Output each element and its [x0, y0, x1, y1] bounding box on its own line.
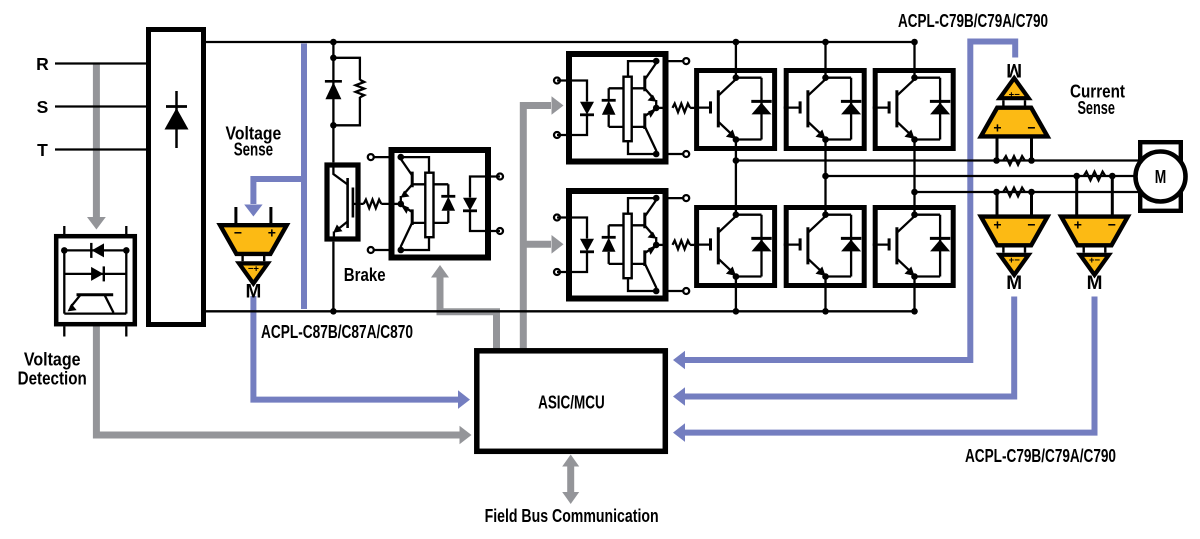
node brake branch split	[330, 55, 337, 62]
IGBT module Q4	[694, 205, 775, 288]
wire voltage sense amp pins	[236, 207, 271, 224]
wire inverter leg 1	[735, 42, 737, 311]
svg-text:−: −	[1027, 120, 1035, 136]
gray wire voltage detection to ASIC	[96, 326, 471, 444]
blue wire phase3 current sense amp to ASIC	[673, 297, 1014, 406]
node leg3 bottom	[911, 308, 918, 315]
gate driver U3 lower	[554, 191, 689, 299]
ASIC/MCU block	[477, 351, 666, 452]
svg-text:S: S	[37, 97, 49, 117]
node leg1 top	[733, 39, 740, 46]
wire inverter leg 3	[913, 42, 915, 311]
current sense amplifier U7 phase V	[1061, 217, 1128, 294]
svg-text:ACPL-C79B/C79A/C790: ACPL-C79B/C79A/C790	[898, 11, 1048, 31]
IGBT module Q1	[694, 68, 775, 151]
gate driver U2 upper	[554, 54, 689, 162]
svg-text:+−: +−	[1009, 90, 1021, 101]
current sense amplifier U5 top (flipped)	[981, 59, 1048, 136]
IGBT module Q2	[784, 68, 865, 151]
wire DC+ top bus	[205, 41, 915, 43]
gray double arrow field bus	[562, 455, 579, 505]
node shunt R3 left	[993, 157, 1000, 164]
brake gate driver U4	[368, 150, 503, 258]
wire gate upper	[690, 107, 694, 109]
shunt resistor R4 on phase V	[1084, 172, 1106, 181]
brake branch diode D2	[325, 81, 342, 99]
gray arrow from R line to voltage detection	[87, 64, 106, 230]
node leg1 bottom	[733, 308, 740, 315]
gray arrow ASIC to gate drivers	[523, 96, 563, 349]
node brake top	[330, 39, 337, 46]
wire S	[55, 105, 146, 107]
blue wire phase2 current sense amp to ASIC	[673, 297, 1095, 442]
wire phase2 amp pins	[1077, 176, 1113, 216]
svg-text:−: −	[234, 225, 242, 241]
node shunt R5 right	[1028, 189, 1035, 196]
voltage sense amplifier U1	[220, 225, 287, 303]
svg-text:−: −	[1108, 217, 1116, 233]
svg-text:R: R	[36, 54, 49, 74]
rectifier bridge	[149, 30, 204, 325]
node phase W tap	[911, 189, 918, 196]
gate resistor R8 brake	[364, 200, 382, 209]
wire R	[55, 62, 146, 64]
svg-text:−: −	[1027, 217, 1035, 233]
wire inverter leg 2	[824, 42, 826, 311]
voltage detection optocoupler	[56, 226, 135, 337]
shunt resistor R5 on phase W	[1003, 188, 1025, 197]
wire phase3 amp pins	[997, 192, 1032, 216]
wire phase V	[826, 175, 1141, 177]
motor M	[1136, 142, 1186, 211]
svg-text:ACPL-C87B/C87A/C870: ACPL-C87B/C87A/C870	[261, 322, 413, 342]
brake IGBT module Q7	[327, 165, 358, 239]
IGBT module Q5	[784, 205, 865, 288]
gate resistor R6 upper	[673, 104, 691, 113]
svg-text:Detection: Detection	[18, 369, 87, 389]
svg-text:M: M	[1155, 166, 1167, 187]
wire top amp pins	[997, 137, 1032, 161]
node shunt R4 right	[1109, 173, 1116, 180]
wire DC- bottom bus	[205, 310, 915, 312]
svg-text:+: +	[993, 217, 1001, 233]
blue DC bus sense line	[301, 44, 307, 310]
node shunt R5 left	[993, 189, 1000, 196]
svg-text:−+: −+	[248, 264, 260, 275]
svg-text:Brake: Brake	[344, 265, 386, 285]
svg-text:ACPL-C79B/C79A/C790: ACPL-C79B/C79A/C790	[965, 446, 1116, 466]
wire gate lower	[690, 244, 694, 246]
node leg3 top	[911, 39, 918, 46]
shunt resistor R3 on phase U	[1003, 156, 1025, 165]
svg-text:Sense: Sense	[234, 140, 273, 160]
node leg2 top	[822, 39, 829, 46]
wire brake parallel branch	[333, 58, 360, 126]
node brake branch rejoin	[330, 122, 337, 129]
gate resistor R7 lower	[673, 241, 691, 250]
svg-text:+−: +−	[1089, 255, 1101, 266]
wire phase W	[915, 191, 1141, 193]
svg-text:T: T	[37, 140, 48, 160]
svg-text:+: +	[993, 120, 1001, 136]
IGBT module Q6	[873, 205, 954, 288]
wire T	[55, 148, 146, 150]
brake branch resistor R2	[356, 80, 365, 98]
svg-text:Sense: Sense	[1077, 98, 1115, 118]
svg-text:ASIC/MCU: ASIC/MCU	[538, 393, 605, 413]
IGBT module Q3	[873, 68, 954, 151]
wire gate brake	[361, 203, 389, 205]
current sense amplifier U6 phase W	[981, 217, 1048, 294]
blue wire voltage sense amp to ASIC	[253, 296, 470, 409]
svg-text:+: +	[268, 225, 276, 241]
node shunt R3 right	[1028, 157, 1035, 164]
gray arrow ASIC to brake driver	[431, 265, 497, 349]
wire phase U	[736, 159, 1140, 161]
svg-text:Field Bus Communication: Field Bus Communication	[485, 506, 659, 526]
node phase U tap	[733, 157, 740, 164]
node brake bottom	[330, 308, 337, 315]
node phase V tap	[822, 173, 829, 180]
wire brake leg	[332, 42, 334, 311]
blue wire top current sense amp to ASIC	[673, 42, 1015, 370]
node shunt R4 left	[1073, 173, 1080, 180]
svg-text:+: +	[1074, 217, 1082, 233]
node leg2 bottom	[822, 308, 829, 315]
svg-text:+−: +−	[1009, 255, 1021, 266]
blue arrow to voltage sense amp	[244, 179, 305, 217]
svg-text:Voltage: Voltage	[24, 350, 81, 370]
